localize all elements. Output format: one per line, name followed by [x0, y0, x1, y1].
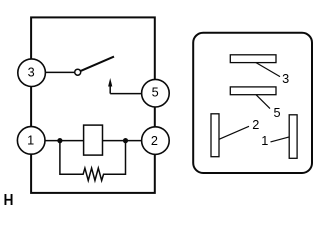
- svg-text:3: 3: [282, 72, 289, 86]
- resistor branch (parallel): [60, 141, 126, 181]
- switch pivot contact: [75, 69, 81, 75]
- terminal 1: [17, 127, 45, 155]
- switch blade: [81, 57, 114, 71]
- leader line pin 3: [256, 63, 280, 77]
- leader line pin 5: [256, 95, 270, 109]
- svg-text:2: 2: [252, 118, 259, 132]
- svg-text:1: 1: [27, 134, 34, 148]
- actuation arrow: [108, 78, 112, 94]
- junction dot right: [123, 138, 128, 143]
- svg-text:1: 1: [261, 134, 268, 148]
- relay coil: [84, 125, 103, 155]
- svg-text:5: 5: [152, 86, 159, 100]
- leader line pin 2: [219, 126, 249, 139]
- wire: arrow corner to terminal 5: [110, 93, 142, 95]
- pin slot 2: [211, 114, 219, 157]
- relay case outline: [31, 17, 155, 193]
- wire: terminal 3 to switch pivot: [45, 71, 75, 73]
- pin slot 1: [289, 115, 297, 159]
- svg-text:2: 2: [151, 134, 158, 148]
- wire: terminal 1 to terminal 2 through coil: [45, 140, 142, 142]
- junction dot left: [57, 138, 62, 143]
- pin slot 3: [230, 55, 276, 63]
- terminal 3: [18, 59, 46, 87]
- svg-text:3: 3: [28, 66, 35, 80]
- terminal 2: [142, 127, 170, 155]
- svg-text:5: 5: [273, 106, 280, 120]
- figure label H: [5, 194, 13, 205]
- terminal 5: [142, 79, 170, 107]
- pin slot 5: [230, 87, 276, 95]
- leader line pin 1: [271, 137, 290, 142]
- connector housing: [193, 33, 312, 173]
